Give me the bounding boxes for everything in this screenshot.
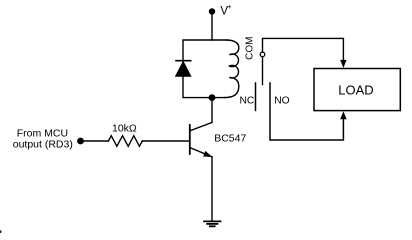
diode D1 triangle (anode, pointing up) (176, 62, 191, 77)
svg-text:BC547: BC547 (214, 133, 246, 145)
relay contact COM terminal circle (260, 52, 265, 57)
relay pole from COM (262, 57, 264, 85)
junction node: coil bottom to collector (209, 94, 216, 101)
transistor Q1 collector diagonal (190, 123, 212, 131)
inductor coil K1 right-side bumps (225, 40, 239, 98)
transistor Q1 emitter diagonal (190, 148, 212, 157)
wire input to resistor (84, 140, 109, 142)
diode D1 cathode bar (176, 60, 191, 62)
relay contact NO bar and wire down to LOAD (270, 83, 343, 140)
node V+ terminal dot (209, 8, 215, 14)
relay coil K1 loop: top, left, bottom lines (183, 40, 227, 98)
transistor Q1 base bar (189, 125, 191, 154)
ground bar 2 (207, 223, 217, 225)
node MCU input terminal dot (77, 138, 84, 145)
svg-text:10kΩ: 10kΩ (112, 123, 137, 135)
wire V+ to coil top (211, 14, 213, 41)
svg-text:NO: NO (274, 96, 289, 107)
arrow into LOAD top (340, 60, 346, 68)
svg-text:NC: NC (240, 95, 255, 106)
resistor R1 zigzag (108, 136, 142, 147)
svg-text:output (RD3): output (RD3) (13, 139, 73, 151)
ground bar 1 (204, 220, 220, 222)
svg-text:From MCU: From MCU (17, 127, 68, 139)
relay contact NC bar (255, 83, 257, 110)
arrow into LOAD bottom (340, 111, 346, 119)
wire COM up and right to LOAD (263, 38, 344, 60)
wire emitter to ground (211, 157, 213, 220)
LOAD box (314, 69, 400, 111)
wire collector vertical (211, 98, 213, 123)
svg-text:+: + (227, 2, 232, 11)
transistor Q1 emitter arrow (203, 151, 212, 157)
wire resistor to base (142, 140, 189, 142)
svg-text:LOAD: LOAD (338, 83, 373, 98)
ground bar 3 (210, 225, 215, 227)
svg-text:COM: COM (245, 37, 256, 60)
edge artifact bottom-left (0, 230, 1, 233)
